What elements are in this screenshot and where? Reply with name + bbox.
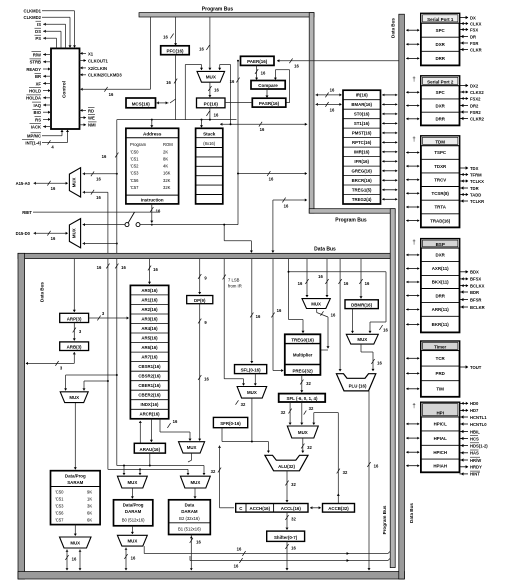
svg-text:PREG(32): PREG(32) <box>292 368 313 373</box>
svg-text:FSX: FSX <box>470 27 478 32</box>
svg-text:†: † <box>412 137 415 143</box>
svg-text:BKR(11): BKR(11) <box>432 322 450 327</box>
svg-text:MUX: MUX <box>357 337 367 342</box>
svg-text:16: 16 <box>261 71 266 76</box>
svg-text:†: † <box>412 404 415 410</box>
svg-text:IAQ: IAQ <box>34 103 42 108</box>
block HPI <box>421 402 460 472</box>
svg-text:Data Bus: Data Bus <box>40 282 45 302</box>
register PAER(16) <box>241 56 275 65</box>
block Serial Port 2 <box>421 76 460 125</box>
wire: control to program bus (16) <box>80 88 82 91</box>
svg-text:CBER1(16): CBER1(16) <box>138 383 161 388</box>
wire: SFL(0-16) to mux M4 <box>254 374 256 386</box>
svg-text:HAS: HAS <box>470 451 479 456</box>
bus: Data Bus bottom horizontal bar <box>18 572 404 580</box>
wire: PFC down (16) <box>175 55 177 120</box>
svg-text:HPICL: HPICL <box>434 422 447 427</box>
svg-text:16: 16 <box>383 328 388 333</box>
svg-text:ACCH(16): ACCH(16) <box>250 506 271 511</box>
wire: bottom horizontal line 1 (16) to program bus <box>144 553 388 555</box>
wires: register column to data bus (bidir x12) <box>382 94 384 97</box>
svg-text:ARCR(16): ARCR(16) <box>139 412 160 417</box>
svg-text:9K: 9K <box>87 490 92 495</box>
svg-text:TDM: TDM <box>435 140 445 145</box>
svg-text:CBER2(16): CBER2(16) <box>138 393 161 398</box>
wire: data bus to mux M6 left (16) <box>306 259 308 297</box>
wire: ARAU output row (to memory muxes) <box>149 453 151 465</box>
svg-text:16: 16 <box>97 265 102 270</box>
svg-text:16: 16 <box>131 556 136 561</box>
register ARB(3) <box>60 342 89 351</box>
svg-text:32: 32 <box>309 406 314 411</box>
mux M1 (program address mux) <box>197 71 225 82</box>
alu ALU(32) <box>265 455 308 471</box>
svg-text:Control: Control <box>62 81 68 98</box>
svg-text:MUX: MUX <box>298 430 308 435</box>
svg-text:16: 16 <box>269 177 274 182</box>
wire: data bus to SFL(0-16) (16) <box>251 259 253 363</box>
wire: data bus to AR file (16) <box>149 259 151 284</box>
block Compare <box>251 81 285 90</box>
svg-text:32: 32 <box>281 410 286 415</box>
svg-text:Shifter(0-7): Shifter(0-7) <box>274 535 298 540</box>
svg-text:ARP(3): ARP(3) <box>67 316 82 321</box>
svg-text:MUX: MUX <box>128 480 138 485</box>
wire: 7 LSB from IR down to mux M4 <box>223 259 225 379</box>
svg-text:AR5(16): AR5(16) <box>141 336 158 341</box>
svg-text:STRB: STRB <box>30 60 41 65</box>
svg-text:TRTA: TRTA <box>435 205 447 210</box>
svg-text:32K: 32K <box>163 178 171 183</box>
svg-text:Stack: Stack <box>203 131 216 136</box>
wire: mux M6 output to multiplier (16) <box>316 309 318 313</box>
svg-text:AR3(16): AR3(16) <box>141 316 158 321</box>
svg-text:16: 16 <box>51 236 56 241</box>
svg-text:16: 16 <box>298 281 303 286</box>
block SFL (-6,0,1,4) <box>279 394 326 402</box>
svg-text:'C52: 'C52 <box>130 164 139 169</box>
block BSP <box>421 239 460 333</box>
wire: SARAM to mux M11 <box>74 525 76 536</box>
register ACCB(32) <box>323 504 355 513</box>
svg-text:WE: WE <box>88 116 95 121</box>
svg-text:HDS(1-2): HDS(1-2) <box>470 443 488 448</box>
wire: mux M10 output to SARAM <box>74 403 76 470</box>
wire: program bus tap to data bus (16, y=200) <box>273 199 307 201</box>
svg-text:AR7(16): AR7(16) <box>141 355 158 360</box>
svg-text:SFL(0-16): SFL(0-16) <box>241 368 262 373</box>
svg-text:'C57: 'C57 <box>55 518 64 523</box>
svg-text:32: 32 <box>291 517 296 522</box>
wire: junction line y=119.6 <box>117 119 237 121</box>
wire: PC down to junction line (16) <box>209 108 211 120</box>
svg-text:HOLD: HOLD <box>29 89 41 94</box>
wire: IR to program bus (16, bidir) <box>316 93 318 96</box>
wire: ALU to ACC (32) <box>286 471 288 502</box>
svg-text:ACCL(16): ACCL(16) <box>281 506 302 511</box>
svg-text:ARR(11): ARR(11) <box>432 307 450 312</box>
svg-text:Timer: Timer <box>434 344 446 349</box>
svg-text:DR2: DR2 <box>470 103 479 108</box>
svg-text:16: 16 <box>294 64 299 69</box>
wire: data bus to Serial Port 1 DRR (bidir) <box>406 57 408 60</box>
svg-text:MUX: MUX <box>72 228 77 238</box>
svg-text:IACK: IACK <box>31 125 41 130</box>
wire: data bus to TDM TCSR(8) (bidir) <box>406 192 408 195</box>
wire: DP down to mux M5 (9 then 16) <box>199 304 201 441</box>
svg-text:TREG2(4): TREG2(4) <box>352 197 372 202</box>
svg-text:PASR(16): PASR(16) <box>259 101 280 106</box>
mux M13 (below DARAM B0) <box>117 535 147 546</box>
wire: data bus to PAER (16) <box>277 60 399 62</box>
svg-text:(8x16): (8x16) <box>203 141 215 146</box>
svg-text:TSPC: TSPC <box>434 150 447 155</box>
svg-text:'C51: 'C51 <box>55 497 64 502</box>
block Data DARAM B2/B1 <box>169 500 211 535</box>
svg-text:16: 16 <box>234 564 239 569</box>
svg-text:CLKR: CLKR <box>470 47 482 52</box>
svg-text:Program Bus: Program Bus <box>202 7 234 13</box>
mux M3 (data pins mux, rotated) <box>69 219 80 248</box>
wire: mux M4 output (32) <box>251 398 253 441</box>
svg-text:CLKR2: CLKR2 <box>470 116 485 121</box>
svg-text:HBIL: HBIL <box>470 429 480 434</box>
svg-text:PLU (16): PLU (16) <box>349 383 367 388</box>
wire: vertical A into mux M10 left <box>66 374 117 376</box>
wire: mux M14 to B2/B1 <box>194 488 196 498</box>
svg-text:'C57: 'C57 <box>130 185 139 190</box>
svg-text:16: 16 <box>291 546 296 551</box>
svg-text:16: 16 <box>72 557 77 562</box>
wire: data bus to Serial Port 1 SPC (bidir) <box>406 29 408 32</box>
svg-text:PFC(16): PFC(16) <box>166 49 184 54</box>
wire: mux M13 to bottom data bus (16, bidir) <box>125 548 128 550</box>
wire: data bus to BSP AXR(11) (bidir) <box>406 267 408 270</box>
wire: B1 to bottom data bus (16, bidir) <box>190 535 192 571</box>
switch on instruction line <box>125 223 129 227</box>
svg-text:Data: Data <box>185 503 195 508</box>
wire: data bus to Serial Port 1 DXR (bidir) <box>406 43 408 46</box>
wire: data bus to Serial Port 2 SPC (bidir) <box>406 91 408 94</box>
svg-text:HCNTL0: HCNTL0 <box>470 422 487 427</box>
svg-text:16: 16 <box>284 204 289 209</box>
wire: ACCB loop to mux M7 right (32) <box>337 413 339 504</box>
bus: Program Bus vertical segment (x=309) <box>309 13 314 214</box>
register DBMR(16) <box>345 300 378 309</box>
svg-text:MUX: MUX <box>191 480 201 485</box>
svg-text:16: 16 <box>365 281 370 286</box>
svg-text:BDX: BDX <box>470 270 479 275</box>
svg-text:RD: RD <box>88 108 94 113</box>
wire: ARP to ARB (3) <box>73 323 75 341</box>
svg-text:DX2: DX2 <box>470 83 479 88</box>
block Shifter(0-7) <box>267 531 305 541</box>
svg-text:PAER(16): PAER(16) <box>247 59 268 64</box>
svg-text:TREG0(16): TREG0(16) <box>291 338 314 343</box>
svg-text:MUX: MUX <box>206 75 217 80</box>
wire: data bus to BSP BKR(11) (bidir) <box>406 323 408 326</box>
wire: DBMR to mux M8 <box>352 309 354 333</box>
svg-text:NMI: NMI <box>88 123 96 128</box>
block ARAU(16) <box>134 443 165 453</box>
svg-text:HPICH: HPICH <box>433 450 447 455</box>
svg-text:IMR(16): IMR(16) <box>354 150 370 155</box>
svg-text:TDXR: TDXR <box>434 164 447 169</box>
wire: Instruction register drop (16) <box>151 204 153 223</box>
block Data/Prog SARAM table <box>51 471 101 525</box>
svg-text:16K: 16K <box>163 171 171 176</box>
svg-text:16: 16 <box>230 79 235 84</box>
wire: data bus to Serial Port 2 DXR (bidir) <box>406 104 408 107</box>
svg-text:16: 16 <box>51 186 56 191</box>
svg-text:ARB(3): ARB(3) <box>67 345 82 350</box>
wire: mux M3 input 1 (from switch line) <box>83 223 85 226</box>
wire: PLU output to data bus bottom (16) <box>368 391 370 570</box>
bus: Program Bus top horizontal bar <box>139 13 314 17</box>
svg-text:†: † <box>412 77 415 83</box>
svg-text:HOLDA: HOLDA <box>26 96 41 101</box>
svg-text:HCNTL1: HCNTL1 <box>470 415 487 420</box>
svg-text:CLKX: CLKX <box>470 21 482 26</box>
svg-text:RS: RS <box>35 117 41 122</box>
register file AR0-ARCR column <box>130 285 168 418</box>
wire: data bus to mux M6 right (16) <box>326 259 328 297</box>
block Stack (8x16) <box>196 128 223 204</box>
svg-text:2K: 2K <box>163 149 168 154</box>
svg-text:R/W: R/W <box>33 52 41 57</box>
svg-text:16: 16 <box>199 47 204 52</box>
svg-text:IR(16): IR(16) <box>356 93 369 98</box>
svg-text:AR1(16): AR1(16) <box>141 297 158 302</box>
svg-text:READY: READY <box>26 67 41 72</box>
svg-text:8K: 8K <box>163 157 168 162</box>
svg-text:16: 16 <box>374 464 379 469</box>
svg-text:IS: IS <box>37 22 41 27</box>
svg-text:32: 32 <box>291 482 296 487</box>
wire: data bus down to PLU left (16) <box>339 259 341 371</box>
svg-text:SARAM: SARAM <box>67 480 83 485</box>
svg-text:DXR: DXR <box>436 253 446 258</box>
svg-text:TFRM: TFRM <box>470 172 482 177</box>
svg-text:BMAR(16): BMAR(16) <box>351 102 372 107</box>
wire: long vertical A (x=116.8) <box>116 120 118 254</box>
svg-text:ST1(16): ST1(16) <box>354 121 370 126</box>
svg-text:PS: PS <box>35 36 41 41</box>
wire: data bus to TDM TRTA (bidir) <box>406 206 408 209</box>
svg-text:DARAM: DARAM <box>181 509 198 514</box>
wire: data bus to Timer TIM (bidir) <box>406 387 408 390</box>
wire: ACC feedback up to SFR line (32) <box>218 446 221 448</box>
svg-text:4K: 4K <box>163 164 168 169</box>
block Timer <box>421 341 460 397</box>
bus: Data Bus left vertical bar <box>18 253 25 579</box>
bus: Data Bus right vertical bar <box>399 14 405 579</box>
wire: data bus to Serial Port 2 DRR (bidir) <box>406 117 408 120</box>
svg-text:DP(9): DP(9) <box>194 298 206 303</box>
register PC(16) <box>197 98 226 108</box>
wire: stack to program bus (y=124) <box>220 123 222 126</box>
svg-text:'C50: 'C50 <box>55 490 64 495</box>
mux M12 (above DARAM B0) <box>117 476 147 488</box>
svg-text:MUX: MUX <box>72 177 77 187</box>
wire: PASR loop into Compare <box>286 102 290 104</box>
mux M5 (ARAU aux mux) <box>179 442 205 453</box>
wire: data bus to Timer TCR (bidir) <box>406 357 408 360</box>
register C / ACCH(16) / ACCL(16) <box>236 504 308 513</box>
svg-text:TREG1(5): TREG1(5) <box>352 188 372 193</box>
svg-text:16: 16 <box>121 265 126 270</box>
wire: mux M2 input 2 (16) <box>83 191 85 194</box>
svg-text:RBIT: RBIT <box>22 210 32 215</box>
wire: ARB to data bus (3) <box>73 352 76 354</box>
svg-text:MUX: MUX <box>69 395 79 400</box>
svg-text:B2 (32x16): B2 (32x16) <box>179 516 200 521</box>
svg-text:Program Bus: Program Bus <box>382 505 387 534</box>
svg-text:Data/Prog: Data/Prog <box>65 474 86 479</box>
wire: drop into Address box <box>151 120 153 127</box>
svg-text:from IR: from IR <box>228 284 242 289</box>
svg-text:DRR: DRR <box>435 56 445 61</box>
svg-text:BSP: BSP <box>436 242 445 247</box>
wire: B0 to mux M13 <box>131 526 133 534</box>
svg-text:XF: XF <box>36 81 42 86</box>
svg-text:16: 16 <box>214 113 219 118</box>
svg-text:MUX: MUX <box>247 390 257 395</box>
svg-text:DXR: DXR <box>436 103 446 108</box>
svg-text:PC(16): PC(16) <box>204 102 219 107</box>
svg-text:CLKMD2: CLKMD2 <box>24 15 42 20</box>
svg-text:AR2(16): AR2(16) <box>141 307 158 312</box>
svg-text:X1: X1 <box>88 51 94 56</box>
svg-text:32: 32 <box>241 402 246 407</box>
svg-text:FSX2: FSX2 <box>470 96 481 101</box>
svg-text:MCS(16): MCS(16) <box>132 102 151 107</box>
svg-text:DARAM: DARAM <box>125 509 142 514</box>
svg-text:BCLKR: BCLKR <box>470 305 485 310</box>
svg-text:B0 (512x16): B0 (512x16) <box>122 518 145 523</box>
svg-text:16: 16 <box>96 177 101 182</box>
svg-text:CBSR2(16): CBSR2(16) <box>138 374 161 379</box>
svg-text:DRR: DRR <box>435 293 445 298</box>
svg-text:HR/W: HR/W <box>470 458 481 463</box>
svg-text:32: 32 <box>343 470 348 475</box>
wire: program bus down to PFC (16) <box>175 17 177 44</box>
svg-text:ROM: ROM <box>163 142 173 147</box>
wire: data bus to BSP BKX(11) (bidir) <box>406 281 408 284</box>
svg-text:6K: 6K <box>87 511 92 516</box>
svg-text:32: 32 <box>307 445 312 450</box>
mux M14 (above DARAM B1/B2) <box>180 476 210 488</box>
wire: data bus to PREG (16) <box>272 259 274 371</box>
svg-text:16: 16 <box>260 127 265 132</box>
svg-text:HRDY: HRDY <box>470 465 482 470</box>
mux M4 (shifter input mux) <box>237 387 267 399</box>
svg-text:Serial Port 2: Serial Port 2 <box>427 80 454 85</box>
wire: data bus to DP (9) <box>199 259 201 294</box>
svg-text:AR6(16): AR6(16) <box>141 345 158 350</box>
wire: mux M2 input 1 (16) <box>83 172 85 175</box>
svg-text:BIO: BIO <box>34 110 42 115</box>
svg-text:AR4(16): AR4(16) <box>141 326 158 331</box>
wire: BMAR to program bus (16, bidir) <box>316 103 318 106</box>
wire: long vertical B (x=107.9) <box>107 259 109 470</box>
svg-text:BFSX: BFSX <box>470 277 481 282</box>
svg-text:GREG(16): GREG(16) <box>352 169 373 174</box>
svg-text:HINT: HINT <box>470 472 480 477</box>
svg-text:16: 16 <box>166 80 171 85</box>
svg-text:SPC: SPC <box>436 28 446 33</box>
svg-text:TCR: TCR <box>436 356 446 361</box>
svg-text:16: 16 <box>196 540 201 545</box>
svg-text:CLKOUT1: CLKOUT1 <box>88 58 108 63</box>
wire: program bus down into mux M1 (16) <box>209 17 211 70</box>
svg-text:16: 16 <box>153 267 158 272</box>
wire: mux M11 to bottom data bus (16, bidir) <box>66 550 69 552</box>
svg-text:DR: DR <box>470 34 476 39</box>
svg-text:'C53: 'C53 <box>55 504 64 509</box>
wire: data bus to TDM TRCV (bidir) <box>406 178 408 181</box>
svg-text:16: 16 <box>377 361 382 366</box>
svg-text:BDR: BDR <box>470 290 479 295</box>
svg-text:CBSR1(16): CBSR1(16) <box>138 364 161 369</box>
svg-text:Data/Prog: Data/Prog <box>123 503 144 508</box>
wire: mux M12 to B0 <box>131 488 133 498</box>
wire: MCS to PFC line (bidir) <box>157 101 159 104</box>
wire: data bus branch to PLU mux hook (y=272) <box>289 271 387 273</box>
svg-text:CLKX2: CLKX2 <box>470 90 484 95</box>
wire: mux M8 to PLU (16) <box>360 344 362 352</box>
svg-text:Compare: Compare <box>258 83 278 88</box>
wire: vertical B into mux M10 right <box>84 380 108 382</box>
svg-text:HPIAH: HPIAH <box>433 463 447 468</box>
svg-text:INT(1-4): INT(1-4) <box>25 140 41 145</box>
svg-text:16: 16 <box>331 313 336 318</box>
wire: data bus to HPI HPICL (bidir) <box>406 423 408 426</box>
svg-text:7 LSB: 7 LSB <box>228 278 240 283</box>
svg-text:A15-A0: A15-A0 <box>16 181 31 186</box>
svg-text:16: 16 <box>214 88 219 93</box>
svg-text:16: 16 <box>156 209 161 214</box>
mux M8 (PLU input mux) <box>346 334 378 344</box>
wire: data bus to DBMR (16) <box>360 259 362 299</box>
wire: vertical x=238 (BMAR/compare path, 16) <box>237 61 239 225</box>
bus: Data Bus horizontal bar (y=254) <box>18 253 390 258</box>
svg-text:16: 16 <box>344 281 349 286</box>
svg-text:DBMR(16): DBMR(16) <box>351 303 373 308</box>
svg-text:SFR(0-16): SFR(0-16) <box>220 421 241 426</box>
control block U1 <box>51 48 80 129</box>
bus: Program Bus right vertical bar <box>390 209 395 568</box>
svg-text:'C53: 'C53 <box>130 171 139 176</box>
svg-text:IFR(16): IFR(16) <box>354 159 369 164</box>
svg-text:TIM: TIM <box>436 386 444 391</box>
mux M7 (ALU input mux) <box>287 426 318 438</box>
svg-text:32: 32 <box>306 381 311 386</box>
register PFC(16) <box>161 46 190 55</box>
svg-text:16: 16 <box>109 92 114 97</box>
svg-text:Serial Port 1: Serial Port 1 <box>427 17 454 22</box>
wire: data bus to TDM TRAD(16) (bidir) <box>406 219 408 222</box>
svg-text:TDX: TDX <box>470 166 479 171</box>
block Address/ROM table <box>126 128 179 204</box>
svg-text:'C56: 'C56 <box>55 511 64 516</box>
wire: mux M7 to ALU (32) <box>302 438 304 453</box>
svg-text:BR: BR <box>35 74 41 79</box>
svg-text:Instruction: Instruction <box>141 198 164 203</box>
svg-text:ARAU(16): ARAU(16) <box>140 447 161 452</box>
mux M11 (below SARAM) <box>60 537 92 548</box>
